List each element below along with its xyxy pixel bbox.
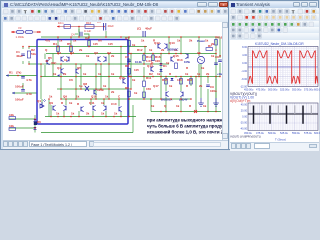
svg-text:1k: 1k <box>157 72 161 76</box>
svg-text:1k: 1k <box>203 104 207 108</box>
wire <box>215 77 217 112</box>
svg-text:4.7k: 4.7k <box>26 92 32 96</box>
page nav buttons <box>3 141 8 147</box>
svg-text:D6: D6 <box>37 120 41 124</box>
meter V5 <box>197 56 204 63</box>
svg-text:R: R <box>77 102 80 106</box>
wire <box>65 99 67 105</box>
wire <box>168 37 170 54</box>
node X <box>194 110 197 113</box>
capacitor C7 <box>127 60 131 62</box>
wire <box>120 47 122 77</box>
svg-text:0.00: 0.00 <box>242 116 247 119</box>
wire <box>198 64 200 77</box>
svg-text:1k: 1k <box>64 58 68 62</box>
svg-text:1k: 1k <box>73 39 77 43</box>
resistor R3 <box>128 41 131 47</box>
wire <box>108 54 110 100</box>
svg-text:Q: Q <box>45 48 48 52</box>
svg-text:40uF: 40uF <box>16 54 23 58</box>
svg-text:C7: C7 <box>125 55 129 59</box>
wire <box>215 77 217 99</box>
wire <box>57 88 131 90</box>
resistor R9 <box>128 91 131 97</box>
svg-text:(9k): (9k) <box>51 61 56 65</box>
svg-text:10.0k: 10.0k <box>135 60 142 64</box>
wire <box>57 37 59 54</box>
wire <box>84 34 89 37</box>
wire <box>180 77 182 92</box>
capacitor C4 <box>71 29 91 37</box>
transistor <box>185 53 188 59</box>
svg-text:1k: 1k <box>166 61 170 65</box>
svg-text:115: 115 <box>93 42 98 46</box>
wire <box>130 77 132 90</box>
svg-text:R13: R13 <box>177 58 183 62</box>
svg-text:1k: 1k <box>197 72 201 76</box>
wire <box>160 54 162 77</box>
input chain R10 C5 <box>57 20 114 31</box>
right bottom scrollbar <box>230 142 319 151</box>
selection box <box>37 40 128 125</box>
svg-text:-20.00: -20.00 <box>240 122 248 125</box>
svg-text:Q8: Q8 <box>83 82 87 86</box>
wire <box>22 83 24 89</box>
svg-text:1k: 1k <box>59 39 63 43</box>
caption buttons right window <box>293 2 300 7</box>
svg-text:2k: 2k <box>161 48 165 52</box>
wire <box>70 37 72 54</box>
svg-text:C: C <box>118 95 121 99</box>
svg-text:1k: 1k <box>185 72 189 76</box>
resistor R7 <box>206 48 213 51</box>
wire <box>128 99 130 117</box>
wire <box>57 63 169 65</box>
svg-text:R: R <box>189 104 192 108</box>
wire <box>92 111 94 117</box>
svg-text:R: R <box>186 84 189 88</box>
right toolbar rows <box>230 8 319 14</box>
svg-text:1k: 1k <box>205 39 209 43</box>
svg-text:4: 4 <box>215 48 217 52</box>
svg-text:2k: 2k <box>79 48 83 52</box>
svg-text:Q9: Q9 <box>63 95 67 99</box>
svg-text:R1: R1 <box>9 71 13 75</box>
wire <box>41 99 43 105</box>
transistor <box>63 105 66 111</box>
ground 1 <box>198 98 204 106</box>
svg-text:40uF: 40uF <box>108 24 115 28</box>
right transient analysis window <box>228 0 319 150</box>
svg-text:10m: 10m <box>58 22 64 25</box>
source V3 <box>11 26 41 39</box>
wire <box>152 54 154 62</box>
minimize button <box>197 2 207 7</box>
wire <box>29 46 147 48</box>
selection handle <box>34 122 37 125</box>
svg-text:-40.00: -40.00 <box>240 128 248 131</box>
svg-text:2k: 2k <box>86 112 90 116</box>
wire <box>41 36 220 38</box>
transistor <box>166 91 169 97</box>
svg-text:2N3055C: 2N3055C <box>167 48 178 52</box>
resistor <box>175 63 178 69</box>
wire <box>195 77 197 112</box>
wire <box>41 63 57 65</box>
nav cluster <box>231 143 236 149</box>
plots svg <box>229 1 320 151</box>
svg-text:4.7k: 4.7k <box>26 78 32 82</box>
wire <box>105 111 107 117</box>
toolbar row 1 <box>2 8 228 15</box>
svg-text:0.1uF: 0.1uF <box>84 29 91 33</box>
wire <box>130 54 132 77</box>
svg-text:Q6: Q6 <box>94 51 98 55</box>
resistor <box>9 117 16 120</box>
transistor <box>81 106 84 112</box>
right arrow thumb <box>309 144 317 148</box>
wire <box>34 115 36 133</box>
wire <box>78 29 80 32</box>
transistor <box>180 91 183 97</box>
wire <box>150 99 152 112</box>
wire <box>143 67 145 81</box>
svg-text:4.00: 4.00 <box>242 54 247 57</box>
resistor <box>190 79 193 85</box>
svg-text:8.00: 8.00 <box>242 46 247 49</box>
svg-text:525.00u: 525.00u <box>280 88 290 92</box>
svg-text:Q13: Q13 <box>169 41 175 45</box>
wire <box>52 54 54 77</box>
diode <box>34 127 37 129</box>
svg-text:R9: R9 <box>125 86 129 90</box>
wire <box>22 47 24 50</box>
svg-text:1k: 1k <box>101 101 105 105</box>
plot1 title <box>255 42 304 46</box>
svg-text:Q17: Q17 <box>153 84 159 88</box>
wire <box>90 99 92 105</box>
transistor <box>103 56 106 62</box>
wire <box>6 75 37 77</box>
plot1 x labels <box>244 88 320 92</box>
plot2 baseline <box>248 113 318 115</box>
svg-text:T (Secs): T (Secs) <box>275 137 286 141</box>
plot2 x labels <box>244 131 320 135</box>
wire <box>100 64 102 89</box>
diode <box>171 78 174 80</box>
svg-text:525.0u: 525.0u <box>280 131 288 135</box>
svg-text:1k: 1k <box>69 101 73 105</box>
wire <box>165 97 167 112</box>
svg-text:150: 150 <box>146 87 151 91</box>
svg-text:51k: 51k <box>31 52 36 56</box>
svg-text:2k: 2k <box>111 54 115 58</box>
wire <box>128 58 130 64</box>
svg-text:R5: R5 <box>48 56 52 60</box>
svg-text:1k: 1k <box>105 95 109 99</box>
wire <box>95 64 97 99</box>
svg-text:600.00u: 600.00u <box>314 88 320 92</box>
resistor <box>152 55 155 61</box>
transistor <box>76 68 79 74</box>
svg-text:1k: 1k <box>49 95 53 99</box>
svg-text:C6: C6 <box>69 78 73 82</box>
svg-text:2k: 2k <box>211 42 215 46</box>
wire <box>88 37 90 47</box>
arrows left stubs <box>6 74 60 94</box>
svg-text:Q5: Q5 <box>77 66 81 70</box>
resistor <box>143 92 146 98</box>
svg-text:C4: C4 <box>71 33 75 37</box>
svg-text:1k: 1k <box>134 91 138 95</box>
transistor <box>171 56 174 62</box>
wire <box>215 37 217 54</box>
wire <box>9 127 35 129</box>
svg-text:V(OUT) (V) BPF(V(OUT)): V(OUT) (V) BPF(V(OUT)) <box>230 134 261 138</box>
svg-text:Power: Power <box>197 39 205 43</box>
svg-text:1k: 1k <box>86 54 90 58</box>
svg-text:1k: 1k <box>76 95 80 99</box>
svg-text:Q11: Q11 <box>89 101 95 105</box>
wire <box>180 97 182 112</box>
capacitor <box>21 90 25 92</box>
wire <box>40 64 42 77</box>
wire <box>9 118 35 120</box>
svg-text:0.00: 0.00 <box>242 62 247 65</box>
diode D6 <box>34 119 37 121</box>
wire <box>128 37 130 54</box>
wire <box>128 68 130 77</box>
capacitor <box>218 60 222 62</box>
schematic v scrollbar <box>222 22 230 140</box>
svg-text:(C): (C) <box>137 27 141 31</box>
wire <box>80 64 82 89</box>
wire <box>75 33 78 35</box>
wire <box>41 76 220 78</box>
wire <box>44 65 46 77</box>
svg-text:40uF: 40uF <box>145 27 152 31</box>
svg-text:1k: 1k <box>201 66 205 70</box>
wire <box>144 47 146 54</box>
capacitor <box>214 63 218 65</box>
svg-text:Q1: Q1 <box>37 99 41 103</box>
resistor <box>143 81 146 87</box>
svg-text:1k: 1k <box>114 112 118 116</box>
wire <box>180 37 182 54</box>
svg-text:600.0u: 600.0u <box>314 131 320 135</box>
svg-text:1k: 1k <box>132 78 136 82</box>
svg-text:(7k): (7k) <box>16 71 21 75</box>
svg-text:47u: 47u <box>45 39 50 43</box>
schematic canvas <box>3 22 229 140</box>
svg-text:2k: 2k <box>189 39 193 43</box>
svg-text:10k: 10k <box>9 113 14 117</box>
resistor <box>70 46 73 52</box>
wire <box>215 54 217 77</box>
h scrollbar <box>93 142 221 147</box>
capacitor <box>21 77 25 79</box>
svg-text:115: 115 <box>177 78 182 82</box>
svg-text:Q: Q <box>164 104 167 108</box>
transistor <box>94 89 97 95</box>
wire <box>200 64 202 98</box>
transistor <box>119 106 122 112</box>
svg-text:475.00u: 475.00u <box>256 88 266 92</box>
plot background <box>230 40 319 142</box>
bottom tab bar <box>3 140 229 149</box>
tab <box>254 143 270 149</box>
svg-text:1k: 1k <box>111 72 115 76</box>
svg-text:C10: C10 <box>111 102 117 106</box>
transistor <box>66 56 69 62</box>
node Q8 <box>85 86 89 91</box>
transistor <box>158 43 161 49</box>
toolbar row 2 <box>2 15 228 22</box>
svg-text:550.0u: 550.0u <box>292 131 300 135</box>
svg-text:D2: D2 <box>149 72 153 76</box>
capacitor C6 <box>137 27 152 38</box>
svg-text:1k: 1k <box>101 112 105 116</box>
wire <box>165 77 167 92</box>
capacitor C9 <box>206 85 210 87</box>
waveform V(OUT) red trace <box>253 51 316 83</box>
svg-text:105k: 105k <box>184 60 190 64</box>
wire <box>128 91 130 99</box>
svg-text:2k: 2k <box>199 84 203 88</box>
svg-text:10k: 10k <box>9 124 14 128</box>
svg-text:1k: 1k <box>71 112 75 116</box>
transistor <box>93 105 96 111</box>
transistor <box>53 105 56 111</box>
wire <box>207 77 209 84</box>
wire <box>103 99 105 105</box>
right window title bar <box>230 2 317 8</box>
plot2 y labels <box>240 104 248 131</box>
maximize button <box>208 2 218 7</box>
wire <box>120 111 122 117</box>
wire <box>22 61 24 64</box>
svg-text:1k: 1k <box>103 84 107 88</box>
wire <box>40 77 42 100</box>
wire <box>48 99 50 117</box>
svg-text:R10: R10 <box>86 22 92 25</box>
svg-text:C5: C5 <box>97 22 101 24</box>
resistor R6 <box>88 41 91 47</box>
wire <box>105 31 107 37</box>
capacitor C1 <box>21 54 25 56</box>
wire <box>29 61 41 64</box>
svg-text:1.033u: 1.033u <box>16 35 25 39</box>
svg-text:2k: 2k <box>111 90 115 94</box>
left main window <box>0 0 228 150</box>
svg-text:R5: R5 <box>67 42 71 46</box>
svg-text:115: 115 <box>134 68 139 72</box>
wire <box>151 111 221 113</box>
svg-text:100: 100 <box>155 59 160 63</box>
svg-text:1k: 1k <box>149 48 153 52</box>
resistor R8 <box>128 69 131 75</box>
resistor <box>57 46 60 52</box>
plot1 y labels <box>240 46 248 89</box>
plot2 grid <box>248 103 318 131</box>
svg-text:-4.00: -4.00 <box>241 70 247 73</box>
svg-text:115: 115 <box>108 42 113 46</box>
svg-text:Q4: Q4 <box>57 66 61 70</box>
resistor <box>165 79 168 85</box>
svg-text:1k: 1k <box>211 54 215 58</box>
resistor <box>9 128 16 131</box>
left window title bar <box>2 2 226 8</box>
wire <box>160 77 162 100</box>
svg-text:1k: 1k <box>151 104 155 108</box>
annotation text <box>147 118 233 135</box>
ground 2 <box>213 98 219 106</box>
wire <box>132 105 134 133</box>
wire <box>41 132 133 134</box>
svg-text:1k: 1k <box>83 72 87 76</box>
svg-text:550.00u: 550.00u <box>292 88 302 92</box>
svg-text:1k: 1k <box>169 84 173 88</box>
svg-text:100n: 100n <box>210 89 217 93</box>
svg-text:1k: 1k <box>132 43 136 47</box>
svg-text:чуть больше 6 В амплитуда прод: чуть больше 6 В амплитуда продуктов <box>147 124 229 129</box>
svg-text:(7B)4V: (7B)4V <box>179 98 188 102</box>
page tab <box>29 141 87 147</box>
svg-text:500.00u: 500.00u <box>268 88 278 92</box>
wire <box>12 92 37 94</box>
svg-text:1k: 1k <box>141 39 145 43</box>
svg-text:40.00: 40.00 <box>241 104 248 107</box>
svg-text:Q16: Q16 <box>119 76 125 80</box>
svg-text:4k: 4k <box>45 59 49 63</box>
svg-text:1k: 1k <box>98 72 102 76</box>
svg-text:Q10: Q10 <box>91 95 97 99</box>
svg-text:2k: 2k <box>206 72 210 76</box>
transistor <box>123 78 126 84</box>
svg-text:R15: R15 <box>162 78 168 82</box>
close button <box>219 2 228 7</box>
svg-text:Q9: Q9 <box>49 101 53 105</box>
svg-text:575.00u: 575.00u <box>304 88 314 92</box>
transistor <box>61 68 64 74</box>
LED Q1 <box>40 99 46 108</box>
svg-text:V3: V3 <box>18 26 22 30</box>
transistor <box>47 59 50 65</box>
wire <box>61 98 191 100</box>
transistor <box>61 56 64 62</box>
wire <box>75 64 77 99</box>
svg-text:R4: R4 <box>53 42 57 46</box>
svg-text:R: R <box>61 101 64 105</box>
svg-text:100uF: 100uF <box>15 98 24 102</box>
svg-text:R11: R11 <box>146 76 152 80</box>
plot1 zero axis <box>248 66 318 68</box>
plot1 grid <box>248 47 318 87</box>
svg-text:1k: 1k <box>53 72 57 76</box>
svg-text:R: R <box>169 72 172 76</box>
transistor <box>98 56 101 62</box>
wire <box>45 116 136 118</box>
svg-text:d(V(Out)+T)m: d(V(Out)+T)m <box>230 99 251 103</box>
svg-text:500.0u: 500.0u <box>268 131 276 135</box>
svg-text:575.0u: 575.0u <box>304 131 312 135</box>
wire <box>44 54 46 60</box>
svg-text:искажений более 1,0 В, это поч: искажений более 1,0 В, это почти 20% <box>147 130 229 135</box>
svg-text:при амплитуде выходного напряж: при амплитуде выходного напряжения <box>147 118 229 123</box>
svg-text:R8: R8 <box>125 64 129 68</box>
wire <box>63 111 65 117</box>
transistor <box>151 66 154 72</box>
